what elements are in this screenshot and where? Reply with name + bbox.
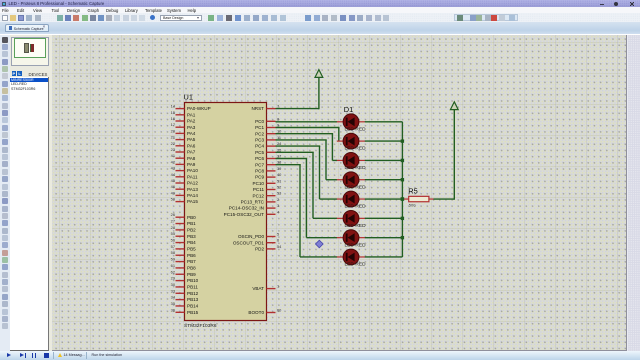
svg-text:LED-RED: LED-RED	[345, 126, 367, 132]
svg-text:3: 3	[277, 203, 279, 208]
svg-text:23: 23	[171, 147, 175, 152]
svg-text:57: 57	[171, 244, 175, 249]
svg-text:PA9: PA9	[187, 162, 196, 167]
svg-text:PC3: PC3	[255, 138, 264, 143]
svg-text:44: 44	[171, 172, 176, 177]
svg-text:62: 62	[171, 269, 175, 274]
svg-text:39: 39	[277, 166, 281, 171]
svg-text:OSCOUT_PD1: OSCOUT_PD1	[233, 240, 265, 245]
svg-text:54: 54	[277, 244, 282, 249]
svg-text:PA8: PA8	[187, 156, 196, 161]
svg-text:PC7: PC7	[255, 162, 264, 167]
svg-text:LED-RED: LED-RED	[345, 223, 367, 229]
svg-text:28: 28	[171, 225, 175, 230]
svg-text:1: 1	[277, 284, 279, 289]
svg-text:29: 29	[171, 276, 175, 281]
svg-text:PC5: PC5	[255, 150, 264, 155]
svg-text:34: 34	[171, 295, 176, 300]
svg-text:OSCIN_PD0: OSCIN_PD0	[238, 234, 264, 239]
svg-text:LED-RED: LED-RED	[345, 184, 367, 190]
svg-text:41: 41	[171, 153, 175, 158]
svg-text:6: 6	[277, 238, 279, 243]
svg-text:33: 33	[171, 288, 175, 293]
svg-text:PB7: PB7	[187, 259, 196, 264]
svg-text:16: 16	[171, 116, 175, 121]
svg-text:22: 22	[171, 141, 175, 146]
svg-text:PB11: PB11	[187, 285, 198, 290]
svg-text:17: 17	[171, 122, 175, 127]
svg-text:45: 45	[171, 178, 175, 183]
svg-text:43: 43	[171, 166, 175, 171]
svg-text:58: 58	[171, 250, 175, 255]
svg-text:PC10: PC10	[253, 181, 265, 186]
svg-text:4: 4	[277, 209, 280, 214]
svg-text:PB1: PB1	[187, 221, 196, 226]
svg-text:PA1: PA1	[187, 112, 196, 117]
svg-text:PC0: PC0	[255, 119, 264, 124]
svg-text:5: 5	[277, 232, 279, 237]
svg-text:PA5: PA5	[187, 137, 196, 142]
svg-text:PB2: PB2	[187, 227, 196, 232]
svg-text:55: 55	[171, 231, 175, 236]
svg-text:PB6: PB6	[187, 253, 196, 258]
svg-text:BOOT0: BOOT0	[248, 310, 264, 315]
svg-text:49: 49	[171, 190, 175, 195]
svg-text:56: 56	[171, 238, 175, 243]
svg-text:52: 52	[277, 185, 281, 190]
svg-text:PC14-OSC32_IN: PC14-OSC32_IN	[229, 206, 264, 211]
svg-text:PB3: PB3	[187, 234, 196, 239]
svg-text:PC12: PC12	[253, 193, 265, 198]
svg-text:NRST: NRST	[251, 106, 264, 111]
svg-text:PC13_RTC: PC13_RTC	[241, 200, 265, 205]
svg-text:LED-RED: LED-RED	[345, 262, 367, 268]
svg-text:PC11: PC11	[253, 187, 265, 192]
svg-text:PC9: PC9	[255, 175, 264, 180]
svg-text:PA6: PA6	[187, 143, 196, 148]
svg-text:8: 8	[277, 116, 279, 121]
svg-text:PB4: PB4	[187, 240, 196, 245]
svg-text:LED-RED: LED-RED	[345, 242, 367, 248]
svg-text:PC15-OSC32_OUT: PC15-OSC32_OUT	[224, 212, 265, 217]
svg-text:24: 24	[277, 141, 282, 146]
svg-text:PA3: PA3	[187, 125, 196, 130]
svg-text:59: 59	[171, 257, 175, 262]
svg-text:10: 10	[277, 129, 282, 134]
svg-text:PA15: PA15	[187, 199, 198, 204]
svg-text:21: 21	[171, 135, 175, 140]
svg-text:PA14: PA14	[187, 193, 198, 198]
svg-text:PA2: PA2	[187, 119, 196, 124]
svg-text:30: 30	[171, 282, 176, 287]
svg-text:PA0-WKUP: PA0-WKUP	[187, 106, 211, 111]
svg-text:51: 51	[277, 178, 281, 183]
svg-text:11: 11	[277, 135, 281, 140]
svg-text:LED-RED: LED-RED	[345, 204, 367, 210]
svg-text:37: 37	[277, 154, 281, 159]
svg-text:PD2: PD2	[255, 247, 264, 252]
svg-text:61: 61	[171, 263, 175, 268]
svg-text:PA11: PA11	[187, 174, 198, 179]
svg-text:42: 42	[171, 159, 175, 164]
svg-text:PA13: PA13	[187, 187, 198, 192]
svg-text:40: 40	[277, 172, 282, 177]
svg-text:PB15: PB15	[187, 310, 199, 315]
svg-text:PA10: PA10	[187, 168, 198, 173]
svg-text:50: 50	[171, 197, 176, 202]
svg-text:500: 500	[409, 203, 416, 208]
svg-text:36: 36	[171, 307, 175, 312]
svg-text:PB8: PB8	[187, 266, 196, 271]
svg-text:PA12: PA12	[187, 181, 198, 186]
svg-text:PC6: PC6	[255, 156, 264, 161]
svg-text:U1: U1	[184, 93, 193, 102]
svg-text:PA7: PA7	[187, 150, 196, 155]
svg-text:PB9: PB9	[187, 272, 196, 277]
svg-text:PC2: PC2	[255, 131, 264, 136]
svg-text:9: 9	[277, 123, 279, 128]
svg-text:PB12: PB12	[187, 291, 199, 296]
svg-text:PA4: PA4	[187, 131, 196, 136]
svg-text:PC4: PC4	[255, 144, 264, 149]
svg-text:PB14: PB14	[187, 304, 199, 309]
svg-text:PB5: PB5	[187, 247, 196, 252]
svg-text:15: 15	[171, 110, 175, 115]
svg-text:53: 53	[277, 191, 281, 196]
svg-text:PB13: PB13	[187, 297, 199, 302]
svg-text:PB10: PB10	[187, 278, 199, 283]
svg-text:LED-RED: LED-RED	[345, 146, 367, 152]
svg-text:38: 38	[277, 160, 281, 165]
svg-text:35: 35	[171, 301, 175, 306]
svg-text:PC1: PC1	[255, 125, 264, 130]
svg-text:20: 20	[171, 128, 176, 133]
svg-text:14: 14	[171, 104, 176, 109]
svg-text:STM32F103R6: STM32F103R6	[184, 323, 217, 329]
svg-text:2: 2	[277, 197, 279, 202]
svg-text:D1: D1	[344, 105, 353, 114]
svg-text:R5: R5	[408, 186, 417, 195]
svg-text:27: 27	[171, 219, 175, 224]
svg-text:46: 46	[171, 184, 175, 189]
svg-text:LED-RED: LED-RED	[345, 165, 367, 171]
svg-text:PB0: PB0	[187, 215, 196, 220]
svg-text:26: 26	[171, 212, 175, 217]
svg-text:60: 60	[277, 308, 282, 313]
svg-text:7: 7	[277, 104, 279, 109]
svg-text:25: 25	[277, 147, 281, 152]
svg-text:VBAT: VBAT	[252, 286, 264, 291]
svg-text:PC8: PC8	[255, 169, 264, 174]
